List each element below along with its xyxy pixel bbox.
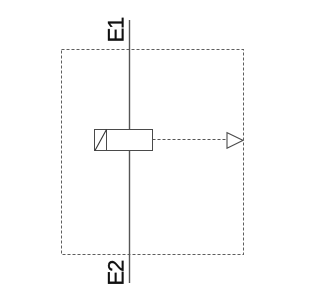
coil diagonal slash (95, 130, 107, 151)
dashed enclosure border (62, 50, 244, 255)
wire E1-E2 vertical (129, 20, 131, 283)
coil K1 box (95, 130, 153, 151)
dashed actuation line (153, 139, 228, 141)
svg-text:E1: E1 (104, 17, 129, 42)
svg-text:E2: E2 (104, 260, 129, 286)
output arrow triangle (227, 133, 243, 149)
coil divider line (106, 130, 108, 151)
